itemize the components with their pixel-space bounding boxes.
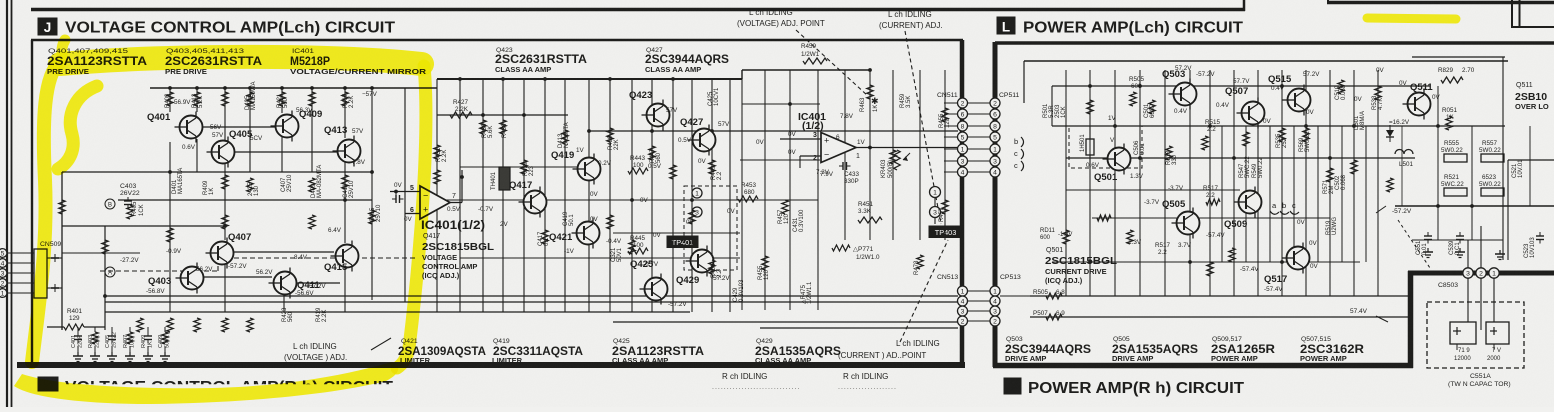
capacitor C403 26V22 — [120, 183, 140, 209]
transistor Q401 — [147, 112, 203, 143]
transistor Q425 — [630, 259, 668, 305]
trimmer KR403 500(B) — [881, 150, 910, 178]
label R ch IDLING (right) — [838, 372, 897, 391]
page left margin double rule — [7, 0, 12, 407]
label 57.2V rail arrow — [1376, 206, 1412, 215]
capacitor C539 — [1456, 232, 1464, 244]
transistor Q429 — [676, 246, 714, 287]
circled B marker — [105, 199, 115, 209]
top-right corner double border of adjacent sheet — [1512, 0, 1554, 28]
label Q511 2SB10 OVER LO — [1515, 82, 1549, 111]
transistor Q421 — [549, 218, 600, 249]
label Q503 2SC3944AQRS DRIVE AMP — [1005, 336, 1091, 363]
dashed leader from bottom CURRENT label to TP403 — [900, 240, 948, 342]
diode D511 — [1386, 125, 1394, 142]
circled terminals in dashed box — [692, 188, 702, 217]
label C551A (TW-N CAPACITOR) — [1448, 373, 1511, 388]
transistor Q505 — [1162, 199, 1200, 239]
resistor R451 3.3K — [858, 201, 882, 223]
asterisk adjust point — [871, 96, 879, 106]
label 57.4V rail arrow — [1350, 308, 1388, 322]
label Q429 2SA1535AQRS CLASS AA AMP — [755, 338, 841, 365]
op-amp IC401 (1/2) first — [390, 170, 494, 232]
test point TP403 — [929, 226, 962, 238]
label Q505 2SA1535AQRS DRIVE AMP — [1112, 336, 1198, 363]
top rule right vertical stub — [1243, 0, 1246, 11]
label Q403,405,411,413 2SC2631RSTTA PRE DRIVE — [165, 48, 262, 76]
dashed box around idling network — [684, 186, 737, 270]
connector CP511 — [968, 92, 1019, 177]
bias dashed box — [1069, 126, 1142, 168]
J box wiring grid right — [740, 68, 958, 310]
resistor R463 1K — [860, 97, 879, 112]
label Q501 2SC1815BGL CURRENT DRIVE (ICQ ADJ.) — [1045, 247, 1118, 285]
dashed leader from CURRENT ADJ to TP403 — [905, 31, 941, 224]
label Q425 2SA1123RSTTA CLASS AA AMP — [612, 338, 704, 365]
component 1H501 body — [1086, 126, 1094, 168]
label IC401 M5218P VOLTAGE/CURRENT MIRROR — [290, 48, 427, 76]
heading POWER AMP(Rch) CIRCUIT (cut) — [1028, 380, 1244, 397]
transistor Q411 — [269, 268, 321, 299]
test point circles near TP403 — [930, 187, 941, 225]
label Q423 2SC2631RSTTA CLASS AA AMP — [495, 47, 587, 74]
inductor L501 — [1395, 150, 1413, 155]
label Q417 2SC1815BGL VOLTAGE CONTROL AMP (ICQ ADJ.) — [422, 233, 495, 280]
labels a b c near Q509 — [1270, 201, 1299, 214]
resistor R405 1CK — [127, 201, 145, 219]
connector CP513 — [968, 274, 1021, 326]
circled A marker — [105, 267, 115, 277]
transistor Q509 — [1224, 187, 1262, 231]
twin capacitor block — [1427, 302, 1524, 368]
ground symbols right — [1423, 248, 1505, 260]
label Q401,407,409,415 2SA1123RSTTA PRE DRIVE — [47, 48, 147, 76]
transistor Q507 — [1225, 86, 1265, 129]
transistor Q427 — [680, 117, 716, 156]
label L ch IDLING (CURRENT) ADJ. — [879, 10, 943, 30]
transistor Q517 — [1264, 243, 1310, 286]
J box voltage annotations — [120, 91, 830, 308]
transistor Q417 — [509, 180, 547, 218]
resistor R427 2.2k — [450, 99, 472, 118]
transistor Q501 — [1094, 144, 1131, 184]
J box wiring grid left — [62, 70, 958, 330]
J box small rotated part labels — [165, 82, 951, 322]
section marker M (black box) — [1004, 378, 1021, 394]
J box resistors — [59, 85, 948, 332]
resistor R445 100 — [628, 235, 648, 254]
heading POWER AMP(Lch) CIRCUIT — [1023, 20, 1243, 37]
connector CN511 — [937, 92, 968, 177]
L box resistors — [1046, 77, 1463, 320]
label Q421 2SA1309AQSTA LIMITER — [398, 338, 486, 365]
capacitor C523 — [1536, 232, 1544, 244]
L box voltage annotations — [1086, 65, 1441, 293]
dashed line to CB503 — [1398, 220, 1430, 268]
transistor Q511 — [1403, 82, 1434, 120]
L box wiring grid — [1000, 57, 1554, 317]
label L ch IDLING (VOLTAGE) ADJ. — [284, 342, 347, 362]
transistor Q515 — [1268, 74, 1311, 116]
connector CB503 — [1438, 268, 1499, 289]
label L ch IDLING (VOLTAGE) ADJ. POINT — [737, 8, 825, 28]
op-amp IC401 (1/2) second — [780, 111, 866, 185]
heading VOLTAGE CONTROL AMP(Lch) CIRCUIT — [65, 20, 395, 37]
CB503 wires — [1468, 226, 1494, 330]
label Q419 2SC3311AQSTA LIMITER — [492, 338, 583, 365]
section marker K (black box) — [38, 377, 58, 391]
test point TP401 — [667, 236, 698, 248]
L circuit box border — [993, 42, 1554, 368]
resistor R453 680 — [738, 182, 758, 202]
resistor R459 1/2W1 — [801, 43, 827, 64]
heading VOLTAGE CONTROL AMP(Rch) CIRCUIT (cut top sliver) — [65, 379, 393, 396]
transistor Q407 — [206, 232, 252, 269]
top rule (bottom border of section above) — [31, 8, 1245, 12]
J circuit box border — [17, 40, 965, 368]
label Q427 2SC3944AQRS CLASS AA AMP — [645, 47, 729, 74]
transistor Q503 — [1162, 69, 1197, 110]
transistor Q413 — [324, 125, 361, 167]
labels a b c at CP511 — [1014, 137, 1024, 171]
resistor R401 129 — [47, 308, 105, 330]
label Q509,517 2SA1265R POWER AMP — [1211, 336, 1276, 363]
label L ch IDLING (CURRENT) ADJ POINT — [838, 339, 940, 360]
capacitor C551 — [1424, 232, 1432, 244]
label Q507,515 2SC3162R POWER AMP — [1300, 336, 1365, 363]
connector CN509 body — [34, 249, 62, 298]
section marker L (black box) — [997, 17, 1015, 35]
transistor Q415 — [324, 241, 359, 274]
label R ch IDLING (left) — [712, 372, 800, 391]
dashed leader from VOLTAGE ADJ POINT — [796, 30, 868, 96]
L box small part labels — [1033, 67, 1536, 317]
thermistor TH401 — [491, 167, 510, 190]
transistor Q423 — [629, 90, 670, 131]
transistor Q403 — [148, 263, 204, 294]
connector CN509 pins — [0, 249, 34, 298]
resistor R443 100 — [628, 155, 648, 174]
transistor Q419 — [551, 150, 601, 185]
connector CN509 label — [40, 241, 61, 248]
J box wiring grid middle — [437, 77, 958, 312]
transistor Q405 — [207, 129, 253, 168]
emitter power resistor boxes — [1444, 154, 1504, 196]
top-right rule segment — [1327, 0, 1554, 4]
connector CN513 — [937, 274, 968, 326]
bottom-left RC cluster — [71, 327, 171, 362]
section marker J (black box) — [38, 18, 57, 35]
leader voltage adj — [371, 338, 391, 350]
resistor P771 1/2W1.0 — [832, 245, 880, 261]
transistor Q409 — [271, 109, 323, 142]
